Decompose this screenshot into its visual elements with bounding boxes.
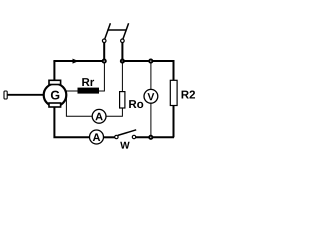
current arrow on top rail	[73, 59, 79, 64]
wire: generator top to rail	[53, 61, 55, 80]
label W	[120, 142, 129, 149]
wire: ammeter A1 to Ro bottom	[106, 108, 122, 116]
switch top: coupling bar	[107, 29, 126, 31]
ammeter A2	[90, 130, 104, 144]
node: junction right (top rail / switch / Ro branch)	[121, 60, 124, 63]
switch W: right contact	[132, 135, 135, 138]
generator top brush	[49, 80, 61, 84]
wire: top-left rail	[53, 60, 104, 62]
wire: junction R down to Ro top	[121, 63, 123, 92]
ammeter A1	[92, 109, 106, 123]
switch W: blade	[118, 130, 136, 136]
voltmeter V	[144, 89, 158, 103]
wire: generator shaft	[7, 94, 45, 96]
wire: ammeter to switch W	[104, 136, 115, 138]
node: junction left (top rail / switch / Rr branch)	[103, 60, 106, 63]
switch W: left contact	[115, 135, 118, 138]
wire: voltmeter branch top	[150, 63, 152, 90]
shaft end cap	[4, 91, 7, 99]
resistor Ro	[120, 92, 144, 109]
generator bottom brush	[49, 103, 61, 107]
wire: Rr left down to ammeter A1	[66, 91, 92, 116]
wire: top-right rail	[122, 60, 173, 62]
rheostat Rr	[78, 78, 99, 93]
resistor R2	[170, 80, 195, 105]
wire: junction L down to Rr	[99, 63, 105, 91]
wire: right side down through R2	[173, 60, 175, 137]
wire: right pole up to switch	[121, 43, 123, 59]
switch top: right blade	[123, 23, 129, 39]
node: voltmeter bottom junction	[149, 136, 152, 139]
generator G	[44, 84, 67, 107]
node: voltmeter top junction	[149, 60, 152, 63]
switch top: left hinge contact	[102, 39, 106, 43]
switch top: left blade	[105, 23, 111, 39]
wire: switch W to bottom-right corner	[136, 136, 174, 138]
wire: voltmeter branch bottom	[150, 103, 152, 135]
wire: bottom rail left segment (generator down and right to ammeter)	[54, 107, 89, 137]
wire: left pole up to switch	[103, 43, 105, 59]
switch top: right hinge contact	[121, 39, 125, 43]
